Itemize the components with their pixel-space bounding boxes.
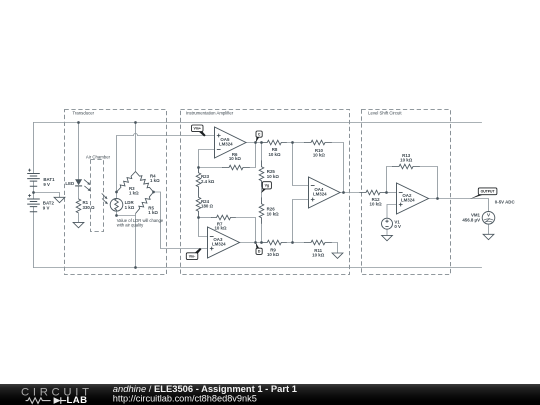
svg-text:1 kΩ: 1 kΩ (125, 205, 135, 210)
svg-text:10 kΩ: 10 kΩ (214, 225, 227, 230)
svg-text:Vin-: Vin- (189, 255, 196, 259)
svg-text:1 kΩ: 1 kΩ (150, 178, 160, 183)
svg-text:10 kΩ: 10 kΩ (267, 211, 280, 216)
svg-text:456.8 µV: 456.8 µV (462, 217, 480, 222)
svg-text:LAB: LAB (67, 395, 88, 405)
svg-text:Air Chamber: Air Chamber (86, 155, 111, 160)
svg-text:Vin+: Vin+ (194, 127, 201, 131)
svg-text:andhine / ELE3506 - Assignment: andhine / ELE3506 - Assignment 1 - Part … (113, 383, 297, 394)
svg-text:1 kΩ: 1 kΩ (148, 210, 158, 215)
svg-text:10 kΩ: 10 kΩ (267, 174, 280, 179)
svg-text:0 V: 0 V (394, 224, 401, 229)
svg-text:10 kΩ: 10 kΩ (370, 201, 383, 206)
svg-text:10 kΩ: 10 kΩ (313, 152, 326, 157)
svg-text:LED: LED (65, 181, 74, 186)
svg-text:http://circuitlab.com/ct8h8ed8: http://circuitlab.com/ct8h8ed8v9nk5 (113, 393, 257, 403)
svg-text:LM324: LM324 (212, 242, 226, 247)
svg-text:9 V: 9 V (43, 206, 50, 211)
svg-text:LM324: LM324 (401, 198, 415, 203)
svg-text:2.4 kΩ: 2.4 kΩ (201, 179, 215, 184)
svg-text:9 V: 9 V (43, 182, 50, 187)
svg-text:10 kΩ: 10 kΩ (400, 157, 413, 162)
svg-text:LM324: LM324 (313, 192, 327, 197)
svg-text:OUTPUT: OUTPUT (481, 190, 496, 194)
svg-text:Level Shift Circuit: Level Shift Circuit (368, 111, 402, 116)
svg-text:330 Ω: 330 Ω (83, 205, 96, 210)
svg-text:180 Ω: 180 Ω (201, 204, 214, 209)
svg-text:10 kΩ: 10 kΩ (268, 152, 281, 157)
svg-text:Transducer: Transducer (73, 111, 95, 116)
svg-text:10 kΩ: 10 kΩ (312, 252, 325, 257)
svg-text:LM324: LM324 (219, 142, 233, 147)
svg-text:Instrumentation Amplifier: Instrumentation Amplifier (186, 111, 234, 116)
svg-text:10 kΩ: 10 kΩ (229, 156, 242, 161)
svg-text:Vg: Vg (265, 184, 269, 188)
svg-text:10 kΩ: 10 kΩ (267, 252, 280, 257)
svg-text:with air quality: with air quality (117, 223, 144, 228)
svg-text:0-5V ADC: 0-5V ADC (495, 199, 516, 204)
svg-text:1 kΩ: 1 kΩ (129, 191, 139, 196)
